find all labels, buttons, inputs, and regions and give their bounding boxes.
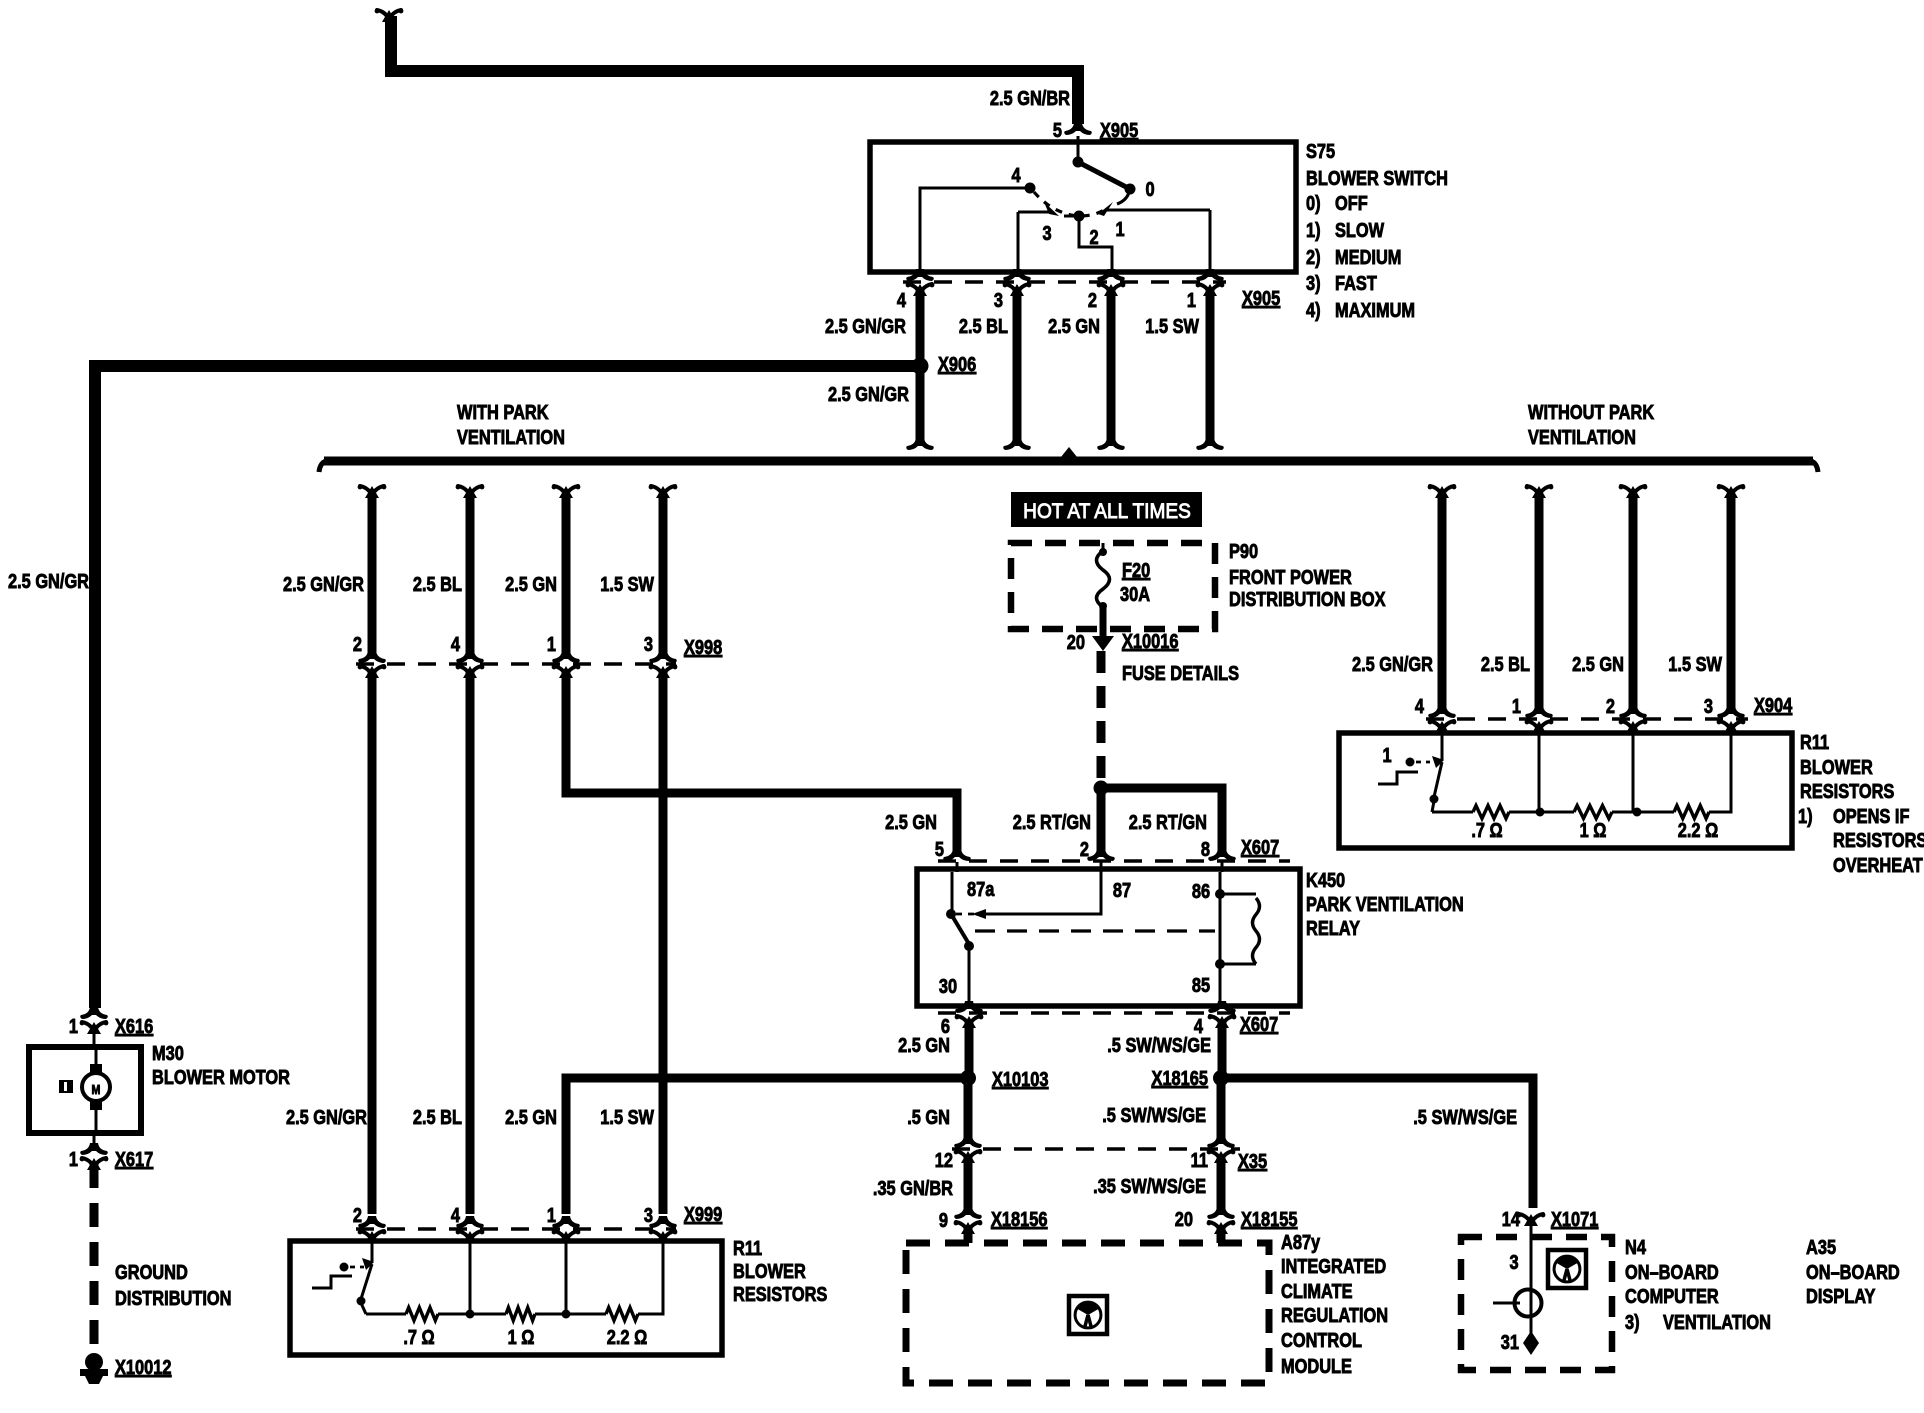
svg-text:X617: X617 [115,1147,153,1170]
svg-text:OFF: OFF [1335,191,1368,214]
svg-text:CLIMATE: CLIMATE [1281,1279,1353,1302]
switch S75 dashed travel arc [1034,192,1104,216]
svg-text:2: 2 [353,632,362,655]
svg-text:4: 4 [451,632,461,655]
svg-text:K450: K450 [1306,868,1345,891]
svg-text:DISTRIBUTION BOX: DISTRIBUTION BOX [1229,587,1386,610]
svg-text:RESISTORS: RESISTORS [733,1282,827,1305]
svg-text:WITH PARK: WITH PARK [457,400,549,423]
wire 2.5 BL to X904 pin 1 [1535,494,1544,710]
svg-text:X18155: X18155 [1241,1207,1297,1230]
svg-text:OVERHEAT: OVERHEAT [1833,853,1923,876]
label HOT AT ALL TIMES [1011,492,1202,527]
blower motor M30 box [29,1047,141,1133]
wire 2.5 RT/GN fuse output (dashed) [1097,651,1106,786]
connector X18155 [1207,1207,1235,1219]
svg-text:0: 0 [1145,177,1154,200]
wire distribution bus line [324,457,1813,466]
svg-text:87: 87 [1113,878,1131,901]
svg-text:X999: X999 [684,1202,722,1225]
switch S75 contact position 1 and wire to pin 1 [1098,202,1113,216]
svg-text:2.2 Ω: 2.2 Ω [1678,818,1718,841]
svg-text:DISPLAY: DISPLAY [1806,1284,1875,1307]
svg-text:RESISTORS: RESISTORS [1833,828,1924,851]
relay K450 coil 86-85 [1219,872,1222,894]
blower resistors R11 box (upper) [1339,733,1792,848]
svg-text:1.5 SW: 1.5 SW [1668,652,1722,675]
svg-text:3: 3 [994,288,1003,311]
connector X904 (dashed line) [1426,717,1748,721]
node splice to relay pins 2 and 8 [1094,781,1109,796]
relay K450 contact arm to pin 30 [951,914,969,944]
resistor 2.2 ohm (upper) [1674,806,1709,819]
svg-text:1: 1 [69,1014,78,1037]
wire ends at bus line [906,438,934,450]
node X10103 splice [960,1070,976,1086]
svg-text:R11: R11 [733,1236,762,1259]
wire 2.5 GN X998 to park ventilation relay pin 5 [566,670,957,852]
svg-text:BLOWER MOTOR: BLOWER MOTOR [152,1065,290,1088]
svg-text:4): 4) [1306,298,1321,321]
wire 2.5 BL from switch pin 3 [1013,288,1022,440]
svg-text:VENTILATION: VENTILATION [457,425,565,448]
svg-text:1: 1 [547,1203,556,1226]
svg-text:2: 2 [1080,837,1089,860]
wire 2.5 GN/GR X998 to X999 [368,670,377,1214]
svg-text:3: 3 [1042,221,1051,244]
svg-text:X905: X905 [1100,118,1138,141]
connector X35 (dashed line) [952,1147,1240,1151]
svg-text:2.5 GN/GR: 2.5 GN/GR [8,569,89,592]
svg-text:2.5 GN/GR: 2.5 GN/GR [828,382,909,405]
svg-text:20: 20 [1067,630,1085,653]
svg-text:2.5 GN: 2.5 GN [505,1105,557,1128]
wire 2.5 GN/BR feed to blower switch pin 5 [391,16,1078,124]
svg-text:2: 2 [1606,694,1615,717]
svg-text:0): 0) [1306,191,1321,214]
svg-text:X607: X607 [1241,835,1279,858]
svg-text:2.5 BL: 2.5 BL [413,572,462,595]
svg-text:1.5 SW: 1.5 SW [600,1105,654,1128]
svg-text:2.2 Ω: 2.2 Ω [607,1325,647,1348]
resistor .7 ohm (upper) [1473,806,1509,819]
connector X999 (dashed line) [356,1227,676,1231]
svg-text:INTEGRATED: INTEGRATED [1281,1254,1386,1277]
node X906 splice [912,358,929,375]
wire .5 GN X10103 to X35 pin 12 [964,1078,973,1143]
svg-text:2.5 RT/GN: 2.5 RT/GN [1129,810,1207,833]
svg-text:COMPUTER: COMPUTER [1625,1284,1719,1307]
svg-text:3: 3 [1704,694,1713,717]
wire 2.5 GN/GR from X906 to blower motor [95,366,920,1008]
svg-text:S75: S75 [1306,139,1335,162]
svg-text:BLOWER: BLOWER [733,1259,806,1282]
svg-text:X904: X904 [1754,693,1793,716]
node X18165 splice [1213,1070,1229,1086]
svg-text:A35: A35 [1806,1235,1836,1258]
svg-text:2.5 GN: 2.5 GN [885,810,937,833]
svg-text:1: 1 [1115,217,1124,240]
svg-text:1.5 SW: 1.5 SW [600,572,654,595]
svg-text:M: M [92,1082,101,1097]
wire 1.5 SW from switch pin 1 [1206,288,1215,440]
svg-text:X10016: X10016 [1122,629,1178,652]
connector X905 below switch (dashed line) [903,280,1226,284]
fan icon A87y [1069,1296,1107,1334]
svg-text:12: 12 [935,1148,953,1171]
svg-text:3): 3) [1306,271,1321,294]
connector X607 bottom (dashed line) [938,1011,1290,1015]
wire 2.5 GN to X998 pin 1 [562,494,571,656]
connector X998 (dashed line) [356,662,676,666]
svg-text:R11: R11 [1800,730,1829,753]
svg-text:VENTILATION: VENTILATION [1528,425,1636,448]
svg-text:87a: 87a [967,877,995,900]
svg-text:FRONT POWER: FRONT POWER [1229,565,1352,588]
wire 2.5 BL X998 to X999 [466,670,475,1214]
R11 upper resistor chain [1432,811,1473,814]
svg-text:.5 GN: .5 GN [907,1105,950,1128]
svg-text:ON–BOARD: ON–BOARD [1625,1260,1719,1283]
resistor 1 ohm (lower) [506,1308,535,1321]
blower switch S75 box [870,142,1296,272]
svg-text:2.5 GN: 2.5 GN [1572,652,1624,675]
svg-text:GROUND: GROUND [115,1260,188,1283]
svg-text:3): 3) [1625,1310,1640,1333]
fuse F20 30A [1102,543,1105,551]
svg-text:FUSE DETAILS: FUSE DETAILS [1122,661,1239,684]
switch S75 wiper from pin 5 to position 0 [1077,145,1080,162]
svg-text:P90: P90 [1229,539,1258,562]
svg-text:9: 9 [939,1208,948,1231]
svg-text:MAXIMUM: MAXIMUM [1335,298,1415,321]
svg-text:.5 SW/WS/GE: .5 SW/WS/GE [1107,1033,1211,1056]
wire 2.5 GN/GR to X998 pin 2 [368,494,377,656]
svg-text:3: 3 [644,1203,653,1226]
svg-text:2.5 GN: 2.5 GN [898,1033,950,1056]
svg-text:MEDIUM: MEDIUM [1335,245,1401,268]
svg-text:2: 2 [1089,225,1098,248]
svg-text:X905: X905 [1242,286,1280,309]
svg-text:X18165: X18165 [1152,1066,1208,1089]
motor M30 symbol [95,1047,98,1066]
svg-text:30: 30 [939,974,957,997]
wire 1.5 SW X998 to X999 [659,670,668,1214]
svg-text:2.5 BL: 2.5 BL [1481,652,1530,675]
svg-text:5: 5 [1053,118,1062,141]
connector X10016 [1100,629,1107,636]
svg-text:.35 GN/BR: .35 GN/BR [873,1176,953,1199]
switch S75 contact position 2 and wire to pin 2 [1064,215,1079,218]
svg-text:31: 31 [1501,1330,1519,1353]
ground X10012 [85,1353,103,1371]
svg-text:DISTRIBUTION: DISTRIBUTION [115,1286,231,1309]
svg-text:.35 SW/WS/GE: .35 SW/WS/GE [1093,1174,1206,1197]
wire 1.5 SW to X904 pin 3 [1727,494,1736,710]
svg-text:5: 5 [935,837,944,860]
svg-text:PARK VENTILATION: PARK VENTILATION [1306,892,1464,915]
resistor 1 ohm (upper) [1574,806,1612,819]
svg-text:X998: X998 [684,635,722,658]
svg-text:1 Ω: 1 Ω [508,1325,535,1348]
integrated climate regulation control module A87y box (dashed) [906,1243,1269,1383]
connector X616 [80,1007,108,1019]
wire 2.5 GN from switch pin 2 [1107,288,1116,440]
relay K450 contact 87a [951,872,954,910]
svg-text:A87y: A87y [1281,1230,1321,1253]
wire .5 SW/WS/GE X18165 to X35 pin 11 [1217,1078,1226,1143]
wire 2.5 GN relay pin 6 to X10103 [965,1020,974,1074]
svg-text:2.5 BL: 2.5 BL [413,1105,462,1128]
svg-text:RESISTORS: RESISTORS [1800,779,1894,802]
svg-text:1.5 SW: 1.5 SW [1145,314,1199,337]
svg-text:30A: 30A [1120,582,1150,605]
svg-text:2.5 GN/GR: 2.5 GN/GR [825,314,906,337]
svg-text:M30: M30 [152,1041,184,1064]
R11 lower thermal cutout switch [371,1241,374,1262]
svg-text:WITHOUT PARK: WITHOUT PARK [1528,400,1655,423]
svg-text:X18156: X18156 [991,1207,1047,1230]
wire 1.5 SW to X998 pin 3 [659,494,668,656]
svg-text:2.5 GN: 2.5 GN [505,572,557,595]
wire .35 SW/WS/GE X35 to X18155 [1217,1155,1226,1214]
svg-text:1 Ω: 1 Ω [1580,818,1607,841]
svg-text:4: 4 [897,288,907,311]
svg-text:OPENS IF: OPENS IF [1833,804,1909,827]
svg-text:4: 4 [1415,694,1425,717]
svg-text:.5 SW/WS/GE: .5 SW/WS/GE [1102,1103,1206,1126]
svg-text:1: 1 [1187,288,1196,311]
svg-text:X906: X906 [938,352,976,375]
R11 lower resistor chain [366,1313,406,1316]
svg-text:2.5 GN/GR: 2.5 GN/GR [286,1105,367,1128]
wire branch tops right group [1435,486,1449,498]
svg-text:F20: F20 [1122,558,1150,581]
svg-text:8: 8 [1201,837,1210,860]
svg-text:2.5 RT/GN: 2.5 RT/GN [1013,810,1091,833]
svg-text:CONTROL: CONTROL [1281,1328,1362,1351]
svg-text:3: 3 [1509,1250,1518,1273]
wire 2.5 GN from X10103 down to X999 pin 1 [566,1078,968,1214]
svg-text:SLOW: SLOW [1335,218,1385,241]
relay K450 linkage (dashed) [975,929,1215,932]
svg-text:FAST: FAST [1335,271,1377,294]
svg-text:.7 Ω: .7 Ω [1471,818,1502,841]
svg-text:.7 Ω: .7 Ω [403,1325,434,1348]
switch S75 contact position 4 and wire to pin 4 [1025,183,1036,194]
svg-text:2.5 GN/BR: 2.5 GN/BR [990,86,1070,109]
svg-text:11: 11 [1191,1148,1208,1171]
connector X1071 [1524,1214,1538,1226]
connector X18156 [954,1207,982,1219]
svg-text:X1071: X1071 [1551,1207,1598,1230]
svg-text:HOT AT ALL TIMES: HOT AT ALL TIMES [1023,500,1191,523]
blower resistors R11 box (lower) [290,1241,722,1355]
wire .35 GN/BR X35 to X18156 [964,1155,973,1214]
svg-text:N4: N4 [1625,1235,1647,1258]
svg-text:1: 1 [547,632,556,655]
svg-text:85: 85 [1192,973,1210,996]
resistor .7 ohm (lower) [406,1308,438,1321]
svg-text:14: 14 [1502,1207,1521,1230]
connector X617 [93,1133,96,1148]
svg-text:2: 2 [1088,288,1097,311]
svg-text:2.5 GN: 2.5 GN [1048,314,1100,337]
wire ground distribution (dashed) [90,1164,99,1352]
svg-text:X10103: X10103 [992,1067,1048,1090]
svg-text:.5 SW/WS/GE: .5 SW/WS/GE [1413,1105,1517,1128]
N4 pin 3 wire and transistor symbol [1530,1237,1533,1289]
wire branch tops left group [365,486,379,498]
svg-text:1: 1 [69,1147,78,1170]
fan icon N4 [1548,1250,1586,1288]
svg-text:X607: X607 [1240,1012,1278,1035]
svg-text:MODULE: MODULE [1281,1354,1352,1377]
svg-text:2.5 BL: 2.5 BL [959,314,1008,337]
svg-text:BLOWER SWITCH: BLOWER SWITCH [1306,166,1448,189]
svg-text:REGULATION: REGULATION [1281,1303,1388,1326]
wire 2.5 GN to X904 pin 2 [1629,494,1638,710]
svg-text:RELAY: RELAY [1306,916,1360,939]
svg-text:3: 3 [644,632,653,655]
svg-text:2): 2) [1306,245,1321,268]
svg-text:VENTILATION: VENTILATION [1663,1310,1771,1333]
N4 pin 31 ground pin [1523,1331,1539,1355]
wire .5 SW/WS/GE relay pin 4 to X18165 [1218,1020,1227,1074]
node top feed arrow (wire from previous sheet) [382,10,396,22]
svg-text:1: 1 [1512,694,1521,717]
svg-text:BLOWER: BLOWER [1800,755,1873,778]
svg-text:4: 4 [451,1203,461,1226]
wire .5 SW/WS/GE from X18165 to on-board computer [1221,1078,1533,1208]
svg-text:X35: X35 [1238,1149,1267,1172]
R11 upper thermal cutout switch [1441,733,1444,760]
svg-text:X616: X616 [115,1014,153,1037]
connector X905 pin 5 [1064,123,1092,135]
park ventilation relay K450 box [917,869,1300,1006]
svg-text:2.5 GN/GR: 2.5 GN/GR [283,572,364,595]
svg-text:1): 1) [1798,804,1813,827]
switch S75 contact position 3 and wire to pin 3 [1044,202,1059,216]
on-board computer N4 box (dashed) [1461,1237,1612,1370]
resistor 2.2 ohm (lower) [606,1308,638,1321]
svg-text:20: 20 [1175,1207,1193,1230]
wire 2.5 GN/GR to X904 pin 4 [1438,494,1447,710]
svg-text:X10012: X10012 [115,1355,171,1378]
svg-text:ON–BOARD: ON–BOARD [1806,1260,1900,1283]
connector X607 top (dashed line) [938,859,1290,863]
svg-text:86: 86 [1192,879,1210,902]
front power distribution box P90 (dashed) [1011,543,1215,629]
relay K450 contact 87 wire to pin 2 [956,913,978,916]
wire 2.5 BL to X998 pin 4 [466,494,475,656]
svg-text:4: 4 [1011,163,1021,186]
svg-text:1): 1) [1306,218,1321,241]
svg-text:1: 1 [1382,743,1391,766]
svg-text:2: 2 [353,1203,362,1226]
wire 2.5 GN/GR from switch pin 4 [916,288,925,440]
svg-text:2.5 GN/GR: 2.5 GN/GR [1352,652,1433,675]
